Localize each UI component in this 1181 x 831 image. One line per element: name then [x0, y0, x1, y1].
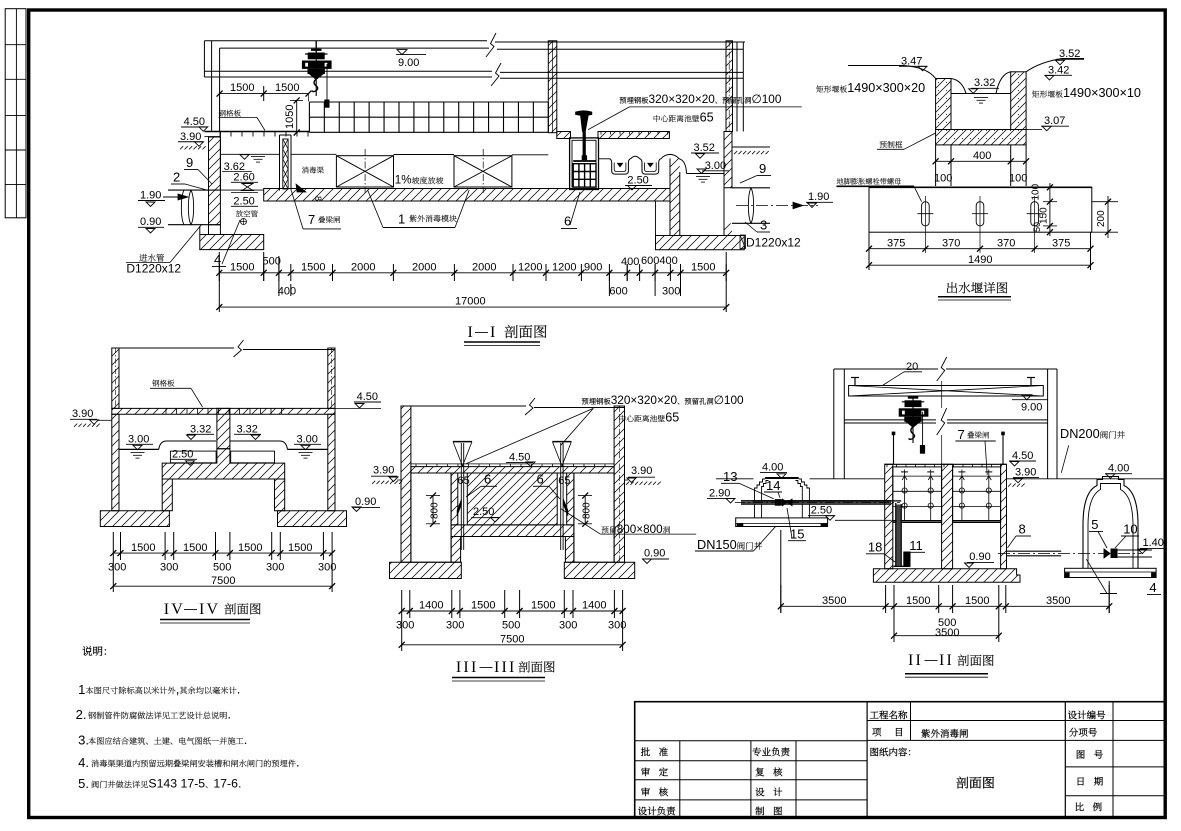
svg-text:370: 370: [997, 238, 1015, 250]
title block texts right: [1068, 710, 1105, 719]
anchor bolts on plate: [922, 202, 930, 226]
svg-text:—: —: [475, 324, 488, 339]
III-III top line with break: [401, 405, 526, 407]
svg-text:14: 14: [766, 478, 780, 493]
II-II gate box left: [893, 467, 942, 523]
svg-text:1500: 1500: [965, 595, 989, 607]
svg-text:3.32: 3.32: [190, 423, 211, 435]
crane beam end stops: [854, 378, 856, 386]
svg-text:1500: 1500: [531, 600, 555, 612]
electric hoist I-I: [315, 41, 317, 96]
svg-text:DN200: DN200: [1060, 426, 1100, 441]
weir plate elevation rect: [869, 187, 1092, 232]
svg-text:0.90: 0.90: [644, 548, 665, 560]
svg-text:1500: 1500: [131, 542, 155, 554]
svg-text:600: 600: [609, 286, 627, 298]
svg-text:DN150: DN150: [697, 537, 737, 552]
svg-text:0.90: 0.90: [140, 216, 161, 228]
svg-text:2.: 2.: [76, 707, 87, 722]
svg-text:1400: 1400: [419, 600, 443, 612]
svg-text:400: 400: [973, 150, 991, 162]
label 钢格板 IV-IV with leader: [152, 380, 174, 387]
IV-IV walkway slab hatched band: [112, 408, 335, 414]
II-II top walkway ticks: [885, 463, 1007, 465]
gate 6 right I-I with valve: [576, 111, 592, 116]
level 9.00 in I-I: [397, 50, 407, 55]
III-III floor band below mass: [451, 525, 574, 537]
svg-text:.: .: [296, 755, 300, 770]
title block outer: [635, 702, 1166, 818]
svg-text:3.: 3.: [78, 733, 89, 748]
svg-text:900: 900: [584, 262, 602, 274]
IV-IV outer wall right hatched: [328, 414, 335, 511]
svg-text:65: 65: [558, 475, 570, 487]
label 消毒渠 I-I: [302, 167, 324, 174]
svg-text:320×320×20: 320×320×20: [649, 92, 716, 106]
svg-text:3.42: 3.42: [1048, 64, 1069, 76]
III-III central mass hatched with slots: [451, 473, 458, 525]
label 4 with leader: [1086, 559, 1107, 593]
svg-text:65: 65: [700, 111, 714, 125]
I-I bottom dimension row: [219, 272, 726, 274]
svg-text:1.90: 1.90: [808, 191, 829, 203]
grating plate squares I-I: [309, 101, 548, 103]
svg-text:300: 300: [160, 562, 178, 574]
svg-text:20: 20: [906, 361, 918, 373]
svg-text:III: III: [494, 659, 517, 676]
svg-text:9.00: 9.00: [1021, 402, 1042, 414]
III-III drain valve right (item 6): [552, 441, 571, 443]
svg-text:7: 7: [308, 212, 315, 227]
svg-text:6: 6: [537, 472, 544, 487]
svg-text:—: —: [184, 601, 197, 616]
svg-text:7: 7: [958, 427, 965, 442]
svg-text:D1220x12: D1220x12: [746, 236, 801, 250]
title block left sub-table: [635, 740, 867, 742]
svg-text:IV: IV: [199, 601, 220, 618]
svg-text:D1220x12: D1220x12: [126, 262, 181, 276]
svg-text:1500: 1500: [906, 595, 930, 607]
walkway plate with ticks I-I left: [204, 131, 309, 133]
svg-text:3.52: 3.52: [1059, 48, 1080, 60]
svg-text:3.32: 3.32: [237, 423, 258, 435]
weir dim 400 row: [935, 145, 937, 167]
svg-text:5: 5: [1091, 517, 1098, 532]
pit inner water levels 3.62/2.60/2.50 and drain: [240, 155, 249, 160]
svg-text:4.00: 4.00: [1108, 463, 1129, 475]
inlet pit floor slab I-I: [200, 235, 264, 250]
svg-text:4.50: 4.50: [357, 391, 378, 403]
svg-text:10: 10: [1123, 522, 1137, 537]
walkway slab right part I-I hatched: [557, 132, 571, 139]
svg-text:S143 17-5: S143 17-5: [148, 777, 205, 791]
section I-I left column: [211, 41, 213, 132]
outlet pit water and level 3.00: [687, 173, 725, 175]
svg-text:150: 150: [1039, 207, 1050, 224]
I-I total dim 17000: [219, 306, 726, 308]
svg-text:9: 9: [759, 161, 766, 176]
II-II right column: [1047, 369, 1049, 479]
prebed steel plate label I-I: [620, 97, 649, 104]
svg-text:7500: 7500: [500, 634, 524, 646]
weir detail left spill curve: [848, 66, 966, 94]
svg-text:1500: 1500: [288, 542, 312, 554]
svg-text:100: 100: [1031, 183, 1042, 200]
III-III left chamber void: [411, 473, 451, 562]
svg-text:300: 300: [396, 620, 414, 632]
svg-text:300: 300: [108, 562, 126, 574]
plate vertical dim 100/150/50: [1049, 183, 1051, 236]
IV-IV legs below: [162, 479, 172, 511]
svg-text:1500: 1500: [238, 542, 262, 554]
svg-text:6: 6: [484, 472, 491, 487]
III-III dims row1: [401, 590, 403, 618]
channel floor slab hatched I-I: [264, 189, 670, 202]
III-III left wall hatched: [401, 406, 411, 562]
ground hatch at structure II-II: [1008, 484, 1011, 487]
DN200 arch well: [1083, 477, 1138, 569]
svg-text:3.90: 3.90: [631, 465, 652, 477]
weir detail bottom slab hatched: [936, 130, 1027, 145]
section I-I building roof slab: [204, 40, 487, 42]
svg-text:15: 15: [790, 527, 804, 542]
svg-text:2.60: 2.60: [233, 172, 254, 184]
svg-text:1500: 1500: [183, 542, 207, 554]
III-III legs: [451, 537, 461, 563]
II-II break marks: [937, 357, 947, 381]
anchor bolt label 地脚膨胀螺栓带螺母: [837, 178, 901, 185]
svg-text:II: II: [908, 652, 923, 669]
II-II roof line: [834, 368, 938, 370]
svg-text:500: 500: [263, 256, 281, 268]
DN200 well base slab: [1065, 568, 1157, 577]
inlet pipe I-I: [168, 189, 220, 191]
III-III slab hatched band: [411, 467, 614, 473]
label 预制框 with leader: [880, 141, 903, 148]
svg-text:1.40: 1.40: [1143, 537, 1164, 549]
svg-text:13: 13: [723, 469, 737, 484]
svg-text:11: 11: [909, 538, 923, 553]
svg-text:II: II: [939, 652, 954, 669]
svg-text:I: I: [468, 324, 476, 341]
title 出水堰详图: [947, 282, 1007, 293]
IV-IV dim 7500: [112, 560, 114, 592]
svg-text:3500: 3500: [1046, 595, 1070, 607]
slope arrow at gate I-I: [296, 184, 306, 192]
svg-text:4.00: 4.00: [762, 461, 783, 473]
svg-text:400: 400: [278, 286, 296, 298]
svg-text:370: 370: [942, 238, 960, 250]
title block verticals: [866, 702, 868, 818]
label 进水管 D1220x12: [139, 254, 164, 262]
IV-IV footings hatched: [100, 511, 169, 527]
outlet weir trough 2 I-I: [640, 159, 661, 174]
UV module box 2 I-I: [454, 156, 512, 187]
title block mid-right rows: [867, 720, 1165, 722]
II-II mid slab lines with break: [844, 419, 936, 421]
svg-text:18: 18: [868, 540, 882, 555]
svg-text:400: 400: [621, 256, 639, 268]
svg-text:3.00: 3.00: [128, 433, 149, 445]
IV-IV right building wall hatched: [328, 348, 335, 408]
valve in DN150 well (items 13/14/15): [775, 499, 782, 506]
svg-text:500: 500: [502, 620, 520, 632]
electric hoist II-II: [912, 396, 914, 443]
svg-text:600400: 600400: [641, 255, 678, 267]
outlet pit I-I: [670, 158, 680, 236]
hoist monorail I-I: [315, 41, 317, 55]
svg-text:500: 500: [213, 562, 231, 574]
svg-text:300: 300: [559, 620, 577, 632]
weir detail right wall hatched: [1011, 72, 1026, 130]
svg-text:17000: 17000: [455, 296, 486, 308]
IV-IV trough left: [159, 441, 216, 449]
label 预留800×800洞: [602, 526, 617, 533]
svg-text:1.90: 1.90: [140, 190, 161, 202]
II-II central structure walls hatched: [885, 464, 893, 569]
DN150 valve well II-II: [765, 477, 799, 479]
label 矩形堰板1490×300×10: [1032, 90, 1063, 97]
pipe DN150 from well to channel: [741, 500, 891, 502]
III-III right chamber void: [574, 473, 614, 562]
hoist hook II-II: [909, 427, 915, 440]
plate dim 1490: [869, 264, 1091, 266]
svg-text:300: 300: [662, 286, 680, 298]
svg-text:3.32: 3.32: [974, 77, 995, 89]
svg-text:—: —: [925, 652, 938, 667]
svg-text:8: 8: [1019, 522, 1026, 537]
svg-text:50: 50: [1032, 222, 1042, 232]
svg-text:1200: 1200: [518, 262, 542, 274]
weir dim 100 labels: [935, 167, 937, 186]
svg-text:2.50: 2.50: [172, 448, 193, 460]
svg-text:3500: 3500: [935, 627, 959, 639]
svg-text:300: 300: [266, 562, 284, 574]
II-II guide posts: [893, 434, 895, 465]
IV-IV building top line with break: [112, 347, 234, 349]
svg-text:3.90: 3.90: [373, 465, 394, 477]
crane beam II-II: [849, 386, 1044, 397]
channel water line I-I: [291, 153, 336, 155]
UV module box 1 I-I: [336, 156, 393, 187]
hoist second cable and weight II-II: [922, 412, 924, 445]
svg-text:8: 8: [313, 196, 323, 201]
svg-text:300: 300: [446, 620, 464, 632]
outlet weir water line I-I: [598, 158, 610, 160]
weir water line and symbol: [951, 93, 1011, 95]
svg-text:2000: 2000: [472, 262, 496, 274]
svg-text:1500: 1500: [471, 600, 495, 612]
inlet pit walls I-I: [209, 137, 221, 225]
dim 1050 vertical: [296, 100, 298, 132]
svg-text:3.52: 3.52: [694, 142, 715, 154]
svg-text:65: 65: [665, 411, 679, 425]
right wall lower part I-I: [724, 132, 732, 188]
DN150 well floor slab: [736, 518, 828, 527]
section I-I roof break mark: [486, 33, 496, 57]
svg-text:4.50: 4.50: [1012, 450, 1033, 462]
svg-text:6: 6: [564, 214, 571, 229]
svg-text:2000: 2000: [412, 262, 436, 274]
stoplog gate slot left I-I (item 7): [279, 135, 281, 191]
svg-text:2.90: 2.90: [709, 487, 730, 499]
section I-I mid slab: [204, 70, 492, 72]
IV-IV water line: [119, 448, 159, 450]
svg-text:IV: IV: [164, 601, 185, 618]
svg-text:3500: 3500: [822, 595, 846, 607]
svg-text:1490×300×10: 1490×300×10: [1063, 86, 1141, 100]
outlet weir wall cap and spill arc I-I: [661, 154, 679, 158]
svg-text:5.: 5.: [78, 776, 89, 791]
hoist second cable and weight I-I: [326, 64, 328, 100]
svg-text:1500: 1500: [691, 262, 715, 274]
svg-text:17-6.: 17-6.: [213, 777, 241, 791]
svg-text:4: 4: [1149, 580, 1156, 595]
svg-text:320×320×20: 320×320×20: [611, 393, 678, 407]
outlet pipe right I-I: [732, 187, 770, 189]
svg-text:∅100: ∅100: [714, 393, 744, 407]
label 钢格板 I-I: [219, 110, 241, 117]
svg-text:3.90: 3.90: [72, 408, 93, 420]
level 9.00 II-II: [1022, 395, 1032, 400]
svg-text:1050: 1050: [284, 105, 296, 129]
section I-I mid slab break mark: [491, 63, 501, 86]
IV-IV central pillar hatched: [217, 408, 230, 448]
svg-text:1: 1: [78, 682, 85, 697]
II-II gate box right: [953, 467, 1001, 523]
svg-text:2.50: 2.50: [233, 196, 254, 208]
svg-text:200: 200: [1096, 210, 1107, 227]
svg-text:1490: 1490: [968, 254, 992, 266]
weir detail left wall hatched: [936, 79, 951, 130]
svg-text:800: 800: [430, 502, 441, 519]
svg-text:0.90: 0.90: [969, 551, 990, 563]
svg-text:∅100: ∅100: [751, 92, 781, 106]
hoist hook I-I: [312, 79, 318, 92]
II-II dims row2 500/3500: [893, 613, 895, 642]
svg-text:,: ,: [176, 682, 180, 697]
svg-text:2000: 2000: [351, 262, 375, 274]
svg-text:2.50: 2.50: [627, 175, 648, 187]
svg-text:3: 3: [760, 218, 767, 233]
svg-text:65: 65: [458, 475, 470, 487]
dim 1500+1500 above grating: [220, 93, 309, 95]
level 1.90 right with arrow: [793, 202, 803, 208]
svg-text:375: 375: [1052, 238, 1070, 250]
svg-text:100: 100: [1009, 173, 1027, 185]
svg-text:.: .: [227, 707, 231, 722]
III-III 800 vertical dims: [432, 496, 434, 524]
IV-IV left building wall hatched: [112, 348, 119, 408]
section I-I middle wall hatched: [548, 41, 557, 133]
svg-text:375: 375: [887, 238, 905, 250]
svg-text:300: 300: [318, 562, 336, 574]
outlet weir trough 1 I-I: [610, 159, 631, 174]
section I-I right outer column: [742, 42, 744, 132]
svg-text:800: 800: [582, 502, 593, 519]
section I-I right wall hatched: [726, 41, 733, 132]
II-II bottom slab hatched: [873, 569, 1020, 583]
svg-text:9.00: 9.00: [398, 57, 419, 69]
svg-text:0.90: 0.90: [355, 496, 376, 508]
label 预埋钢板320×320×20、预留孔洞∅100 III-III: [582, 398, 611, 405]
notes heading 说明: [82, 646, 106, 656]
title block texts mid: [870, 711, 907, 720]
II-II drop pipe and valve 11: [752, 500, 901, 502]
IV-IV base mass hatched: [162, 449, 285, 479]
svg-text:3.90: 3.90: [1015, 467, 1036, 479]
III-III drain valve left (item 6): [453, 441, 472, 443]
svg-text:2.50: 2.50: [811, 505, 832, 517]
revision table top-left: [5, 9, 26, 218]
III-III right wall hatched: [614, 406, 624, 562]
label 7 叠梁闸 with leader: [291, 191, 303, 229]
svg-text:1400: 1400: [582, 600, 606, 612]
svg-text:1490×300×20: 1490×300×20: [847, 81, 925, 95]
svg-text:4.: 4.: [78, 755, 89, 770]
svg-text:3.07: 3.07: [1044, 115, 1065, 127]
svg-text:100: 100: [934, 173, 952, 185]
svg-text:300: 300: [608, 620, 626, 632]
plate dim 375/370/370/375: [868, 232, 870, 270]
svg-text:1: 1: [398, 212, 405, 227]
label 矩形堰板1490×300×20: [816, 85, 847, 92]
outlet weir bump between troughs: [631, 156, 640, 159]
svg-text:1500: 1500: [301, 262, 325, 274]
IV-IV dims row1: [112, 532, 114, 560]
svg-text:7500: 7500: [211, 575, 235, 587]
svg-text:.: .: [244, 732, 248, 747]
svg-text:I: I: [490, 324, 498, 341]
III-III dim 7500: [401, 618, 403, 651]
svg-text:2: 2: [173, 170, 180, 185]
IV-IV outer wall left hatched: [112, 414, 119, 511]
svg-text:1500: 1500: [230, 262, 254, 274]
svg-text:III: III: [456, 659, 479, 676]
gate 6 leaf grid I-I: [573, 164, 596, 187]
svg-text:1500: 1500: [275, 82, 299, 94]
svg-text:1%: 1%: [395, 174, 412, 187]
svg-text:.: .: [237, 682, 241, 697]
svg-text:2.50: 2.50: [473, 506, 494, 518]
II-II dims row1: [780, 585, 782, 613]
III-III footings hatched: [390, 562, 462, 578]
svg-text:9: 9: [186, 155, 193, 170]
weir detail right spill curve: [996, 59, 1084, 94]
svg-text:3.47: 3.47: [901, 56, 922, 68]
svg-text:3.90: 3.90: [180, 131, 201, 143]
label 1 紫外消毒模块 with leader: [368, 190, 383, 228]
svg-text:3.00: 3.00: [705, 160, 726, 172]
ground line II-II: [716, 478, 754, 480]
svg-text:—: —: [480, 659, 493, 674]
title block texts left: [641, 747, 650, 756]
ground right of I-I: [732, 146, 770, 148]
valve 5/10 on pipe: [1104, 549, 1110, 558]
svg-text:4: 4: [214, 252, 221, 267]
plate dim 200 right: [1092, 201, 1118, 203]
svg-text:3.00: 3.00: [297, 433, 318, 445]
svg-text:1200: 1200: [552, 262, 576, 274]
svg-text:1500: 1500: [230, 82, 254, 94]
IV-IV trough right: [230, 441, 288, 449]
pipe 8 to DN200 well: [1007, 550, 1062, 552]
II-II left column: [833, 369, 835, 479]
